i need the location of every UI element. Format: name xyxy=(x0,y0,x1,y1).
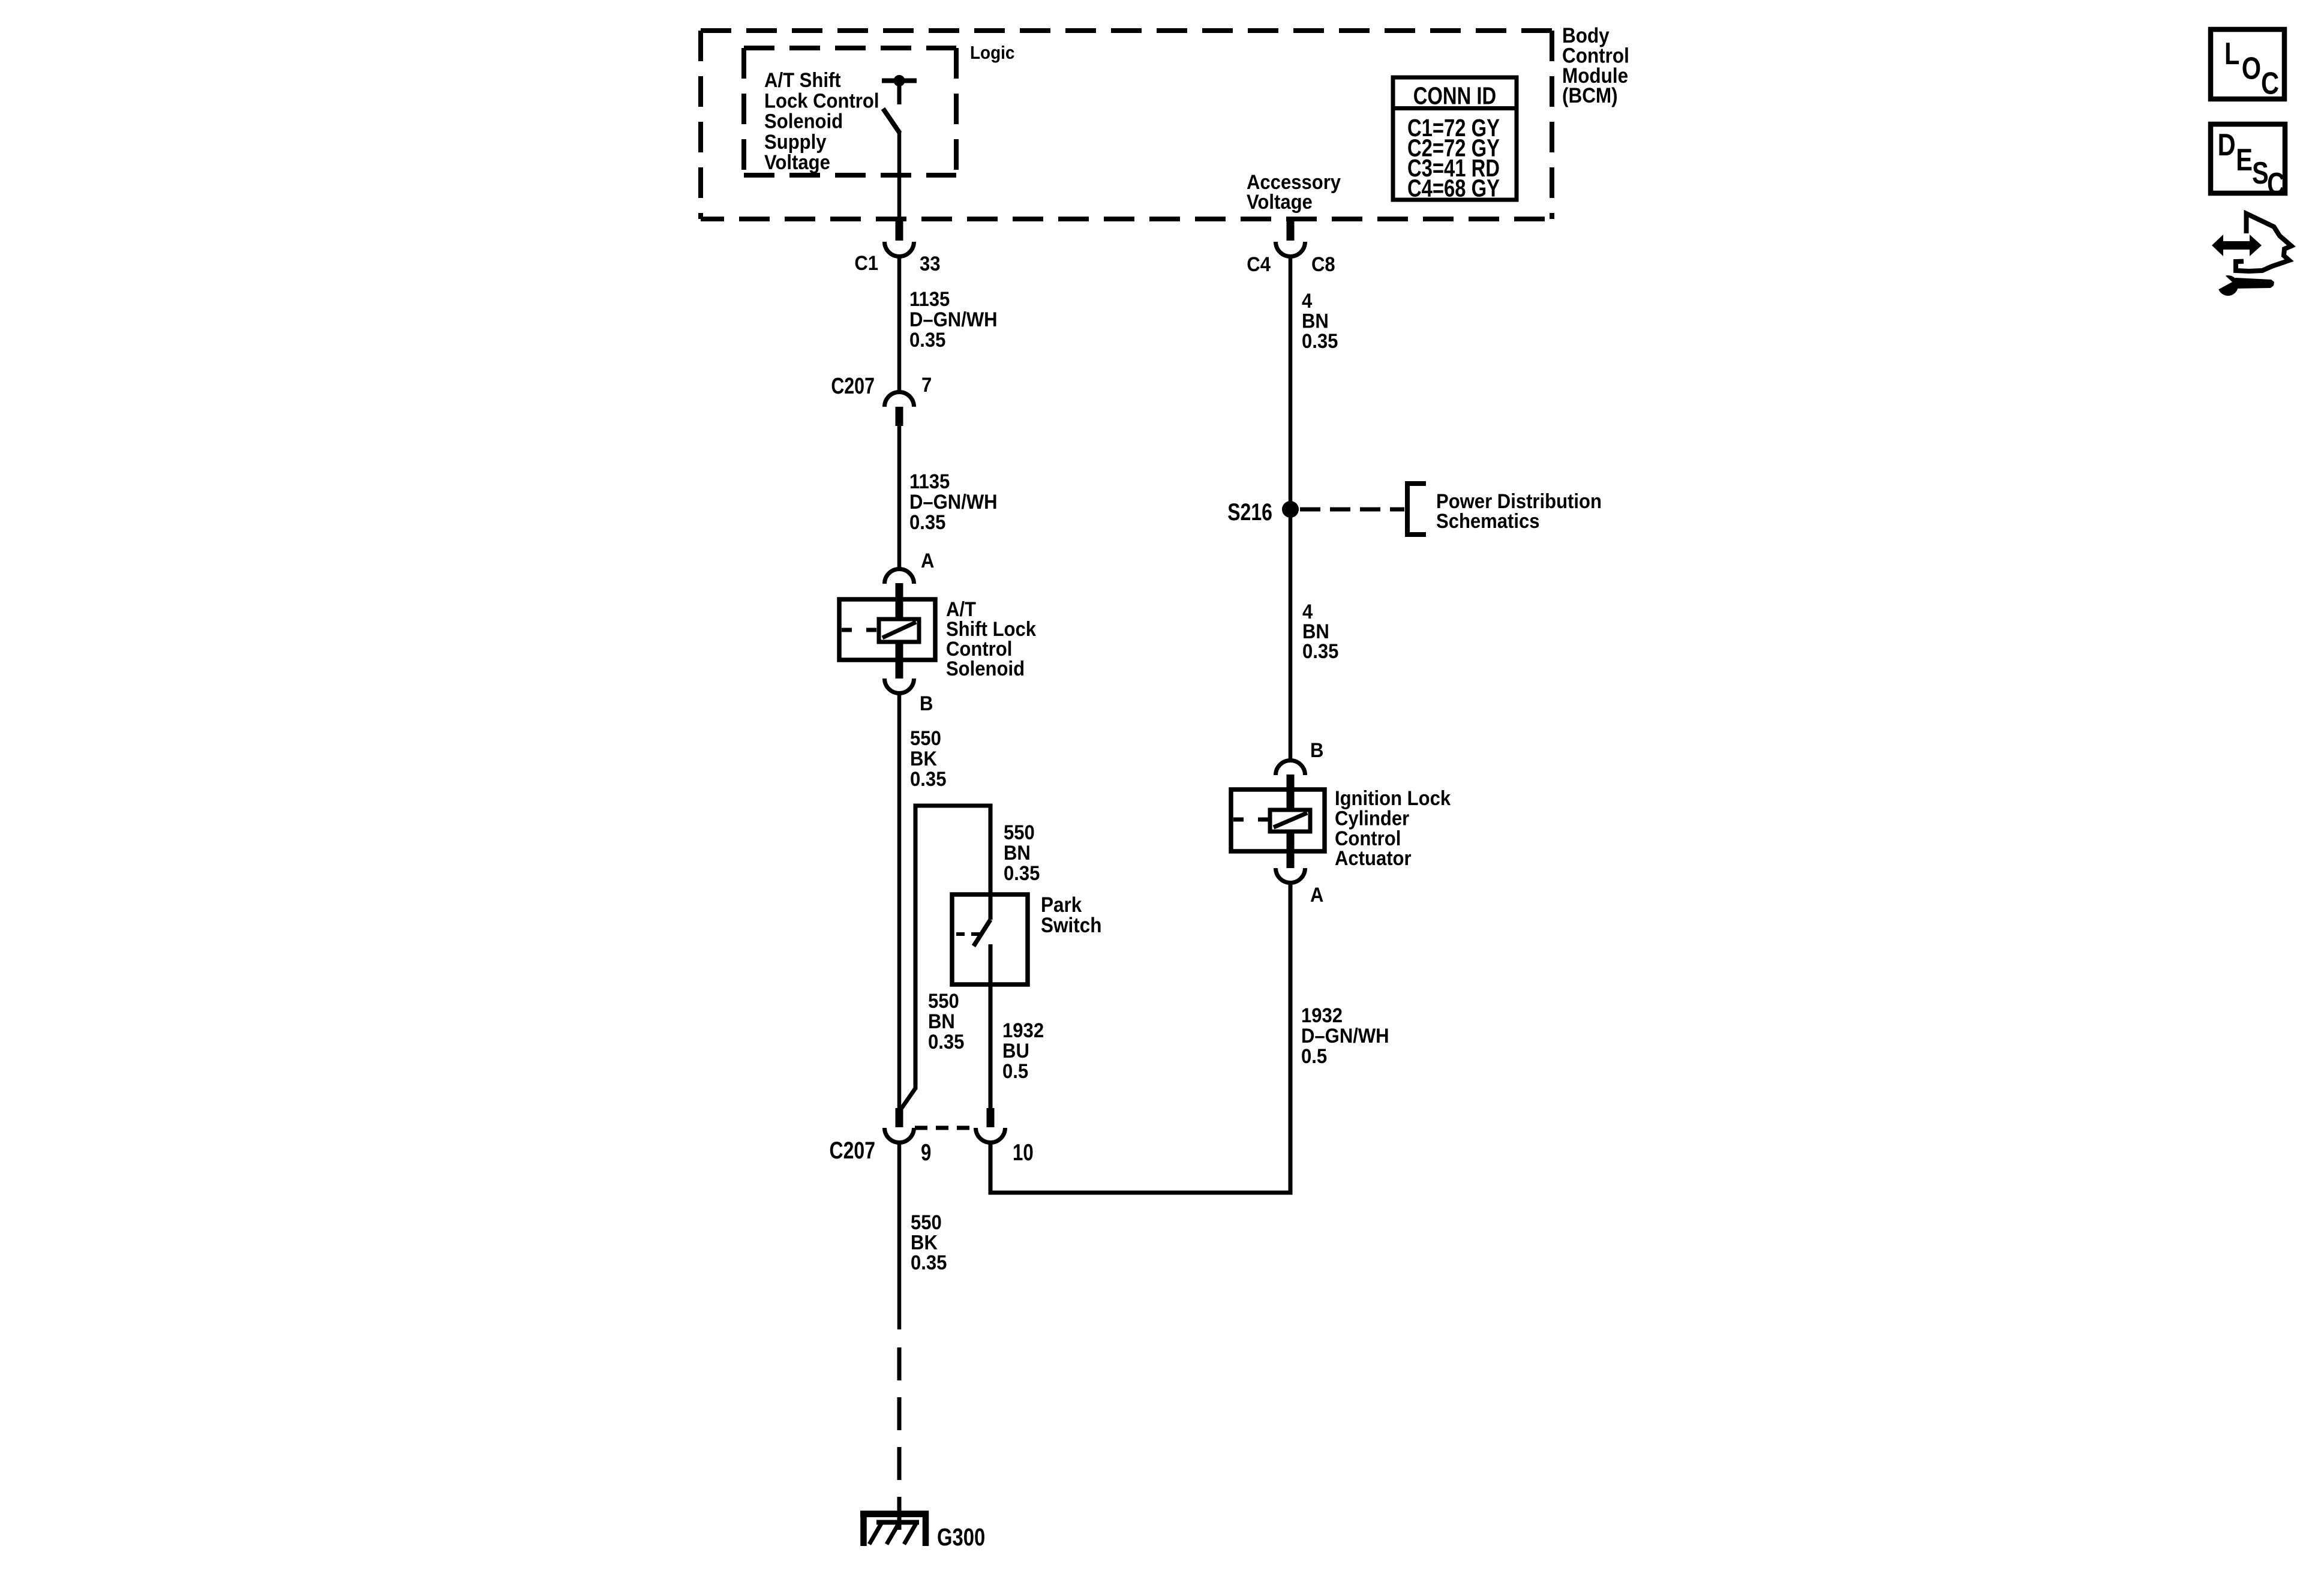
svg-text:A/T Shift: A/T Shift xyxy=(764,68,841,91)
actuator pin B connector xyxy=(1276,761,1305,776)
svg-text:C207: C207 xyxy=(831,374,875,399)
svg-text:D: D xyxy=(2218,127,2236,163)
solenoid pin A connector xyxy=(885,569,914,584)
svg-text:Switch: Switch xyxy=(1041,914,1101,938)
actuator solenoid coil element xyxy=(1270,810,1310,831)
LOC box xyxy=(2211,29,2284,99)
svg-text:B: B xyxy=(1310,738,1323,761)
svg-text:O: O xyxy=(2242,50,2261,86)
Ignition Lock Cylinder Control Actuator box xyxy=(1231,789,1325,851)
connector C207 pin 9 xyxy=(896,1108,903,1127)
svg-text:(BCM): (BCM) xyxy=(1562,85,1618,108)
wrench icon xyxy=(2218,275,2238,296)
component outline icon xyxy=(2236,214,2292,271)
svg-text:S: S xyxy=(2252,155,2269,191)
svg-text:A: A xyxy=(921,548,934,572)
connector C207 pin 7 xyxy=(885,392,914,407)
svg-text:G300: G300 xyxy=(937,1523,985,1550)
svg-text:C: C xyxy=(2261,65,2279,101)
svg-text:C207: C207 xyxy=(830,1137,876,1164)
svg-text:9: 9 xyxy=(921,1140,931,1166)
switch pivot dot xyxy=(894,75,905,86)
svg-text:B: B xyxy=(920,691,933,715)
solenoid pin B connector xyxy=(885,679,914,694)
svg-text:0.35: 0.35 xyxy=(910,767,946,790)
svg-text:0.35: 0.35 xyxy=(911,1250,947,1274)
svg-text:CONN ID: CONN ID xyxy=(1413,82,1496,109)
dashed reference line from S216 xyxy=(1300,508,1404,512)
Logic dashed box xyxy=(744,48,956,175)
svg-text:10: 10 xyxy=(1013,1140,1034,1166)
actuator lead stubs xyxy=(1287,775,1295,810)
park switch actuation dashed line xyxy=(956,932,980,936)
switch stem xyxy=(897,83,902,104)
wire: park switch lower contact to pin 10 xyxy=(989,945,993,1109)
wire: C207 to solenoid pin A xyxy=(897,425,902,570)
Body Control Module (BCM) dashed box xyxy=(701,31,1552,219)
svg-text:0.35: 0.35 xyxy=(909,510,945,533)
svg-text:Lock Control: Lock Control xyxy=(764,89,879,112)
svg-text:C: C xyxy=(2267,166,2285,202)
solenoid coil element xyxy=(879,619,919,642)
connector C207 pin 10 xyxy=(987,1108,995,1127)
wire: pin 10 down, over and up to actuator pin A xyxy=(990,882,1290,1193)
svg-text:Solenoid: Solenoid xyxy=(764,109,843,133)
svg-text:0.5: 0.5 xyxy=(1301,1044,1327,1067)
svg-text:L: L xyxy=(2224,36,2239,71)
svg-text:Voltage: Voltage xyxy=(1247,190,1313,213)
actuator pin A connector xyxy=(1276,868,1305,883)
connector C4 pin C8 (BCM) xyxy=(1287,221,1295,241)
solenoid lead stubs xyxy=(896,583,903,619)
svg-text:S216: S216 xyxy=(1227,499,1272,526)
actuator actuation dashed line xyxy=(1233,818,1270,822)
svg-text:7: 7 xyxy=(921,373,932,396)
CONN ID table xyxy=(1393,77,1517,200)
wire: switch to BCM edge xyxy=(897,132,902,219)
svg-text:C4: C4 xyxy=(1247,252,1271,275)
wire: solenoid pin B to C207 pin 9 xyxy=(897,692,902,1109)
Park Switch box xyxy=(952,894,1028,984)
wire: C4/C8 to actuator pin B xyxy=(1289,256,1293,760)
splice S216 dot xyxy=(1282,501,1299,518)
solenoid actuation dashed line xyxy=(842,628,879,632)
switch blade xyxy=(883,109,900,133)
connector C1 pin 33 (BCM) xyxy=(896,221,903,241)
svg-text:0.5: 0.5 xyxy=(1002,1059,1028,1082)
svg-text:Logic: Logic xyxy=(970,43,1014,64)
svg-text:C1: C1 xyxy=(854,251,878,274)
double-headed arrow icon xyxy=(2212,235,2262,256)
svg-text:Voltage: Voltage xyxy=(764,151,830,174)
wire: dashed drop to ground G300 xyxy=(897,1347,902,1531)
svg-text:C4=68 GY: C4=68 GY xyxy=(1407,174,1500,202)
wire: C207 pin 9 to ground (solid part) xyxy=(897,1142,902,1329)
switch in Logic box: contact bar xyxy=(882,79,917,83)
svg-text:0.35: 0.35 xyxy=(1302,639,1338,662)
svg-text:33: 33 xyxy=(920,251,941,275)
A/T Shift Lock Control Solenoid box xyxy=(839,599,935,660)
bracket to Power Distribution Schematics xyxy=(1407,484,1426,535)
dashed link between pins 9 and 10 xyxy=(915,1126,975,1130)
svg-text:0.35: 0.35 xyxy=(928,1029,964,1053)
svg-text:C8: C8 xyxy=(1311,252,1335,275)
svg-text:E: E xyxy=(2236,142,2253,178)
park switch blade xyxy=(974,920,990,946)
wire: C1 to C207 xyxy=(897,256,902,394)
park switch lower contact xyxy=(989,944,993,984)
svg-text:0.35: 0.35 xyxy=(1302,329,1338,352)
park switch top lead xyxy=(989,894,993,920)
wire: branch from pin 9 up and over to Park Switch xyxy=(902,806,990,1108)
ground G300 symbol xyxy=(860,1511,929,1517)
DESC box xyxy=(2211,124,2285,193)
svg-text:Actuator: Actuator xyxy=(1335,846,1412,870)
svg-text:Solenoid: Solenoid xyxy=(946,656,1025,680)
svg-text:Supply: Supply xyxy=(764,130,827,153)
svg-text:0.35: 0.35 xyxy=(909,328,945,351)
svg-text:Schematics: Schematics xyxy=(1436,509,1540,532)
svg-text:0.35: 0.35 xyxy=(1004,861,1040,884)
svg-text:A: A xyxy=(1310,882,1323,906)
